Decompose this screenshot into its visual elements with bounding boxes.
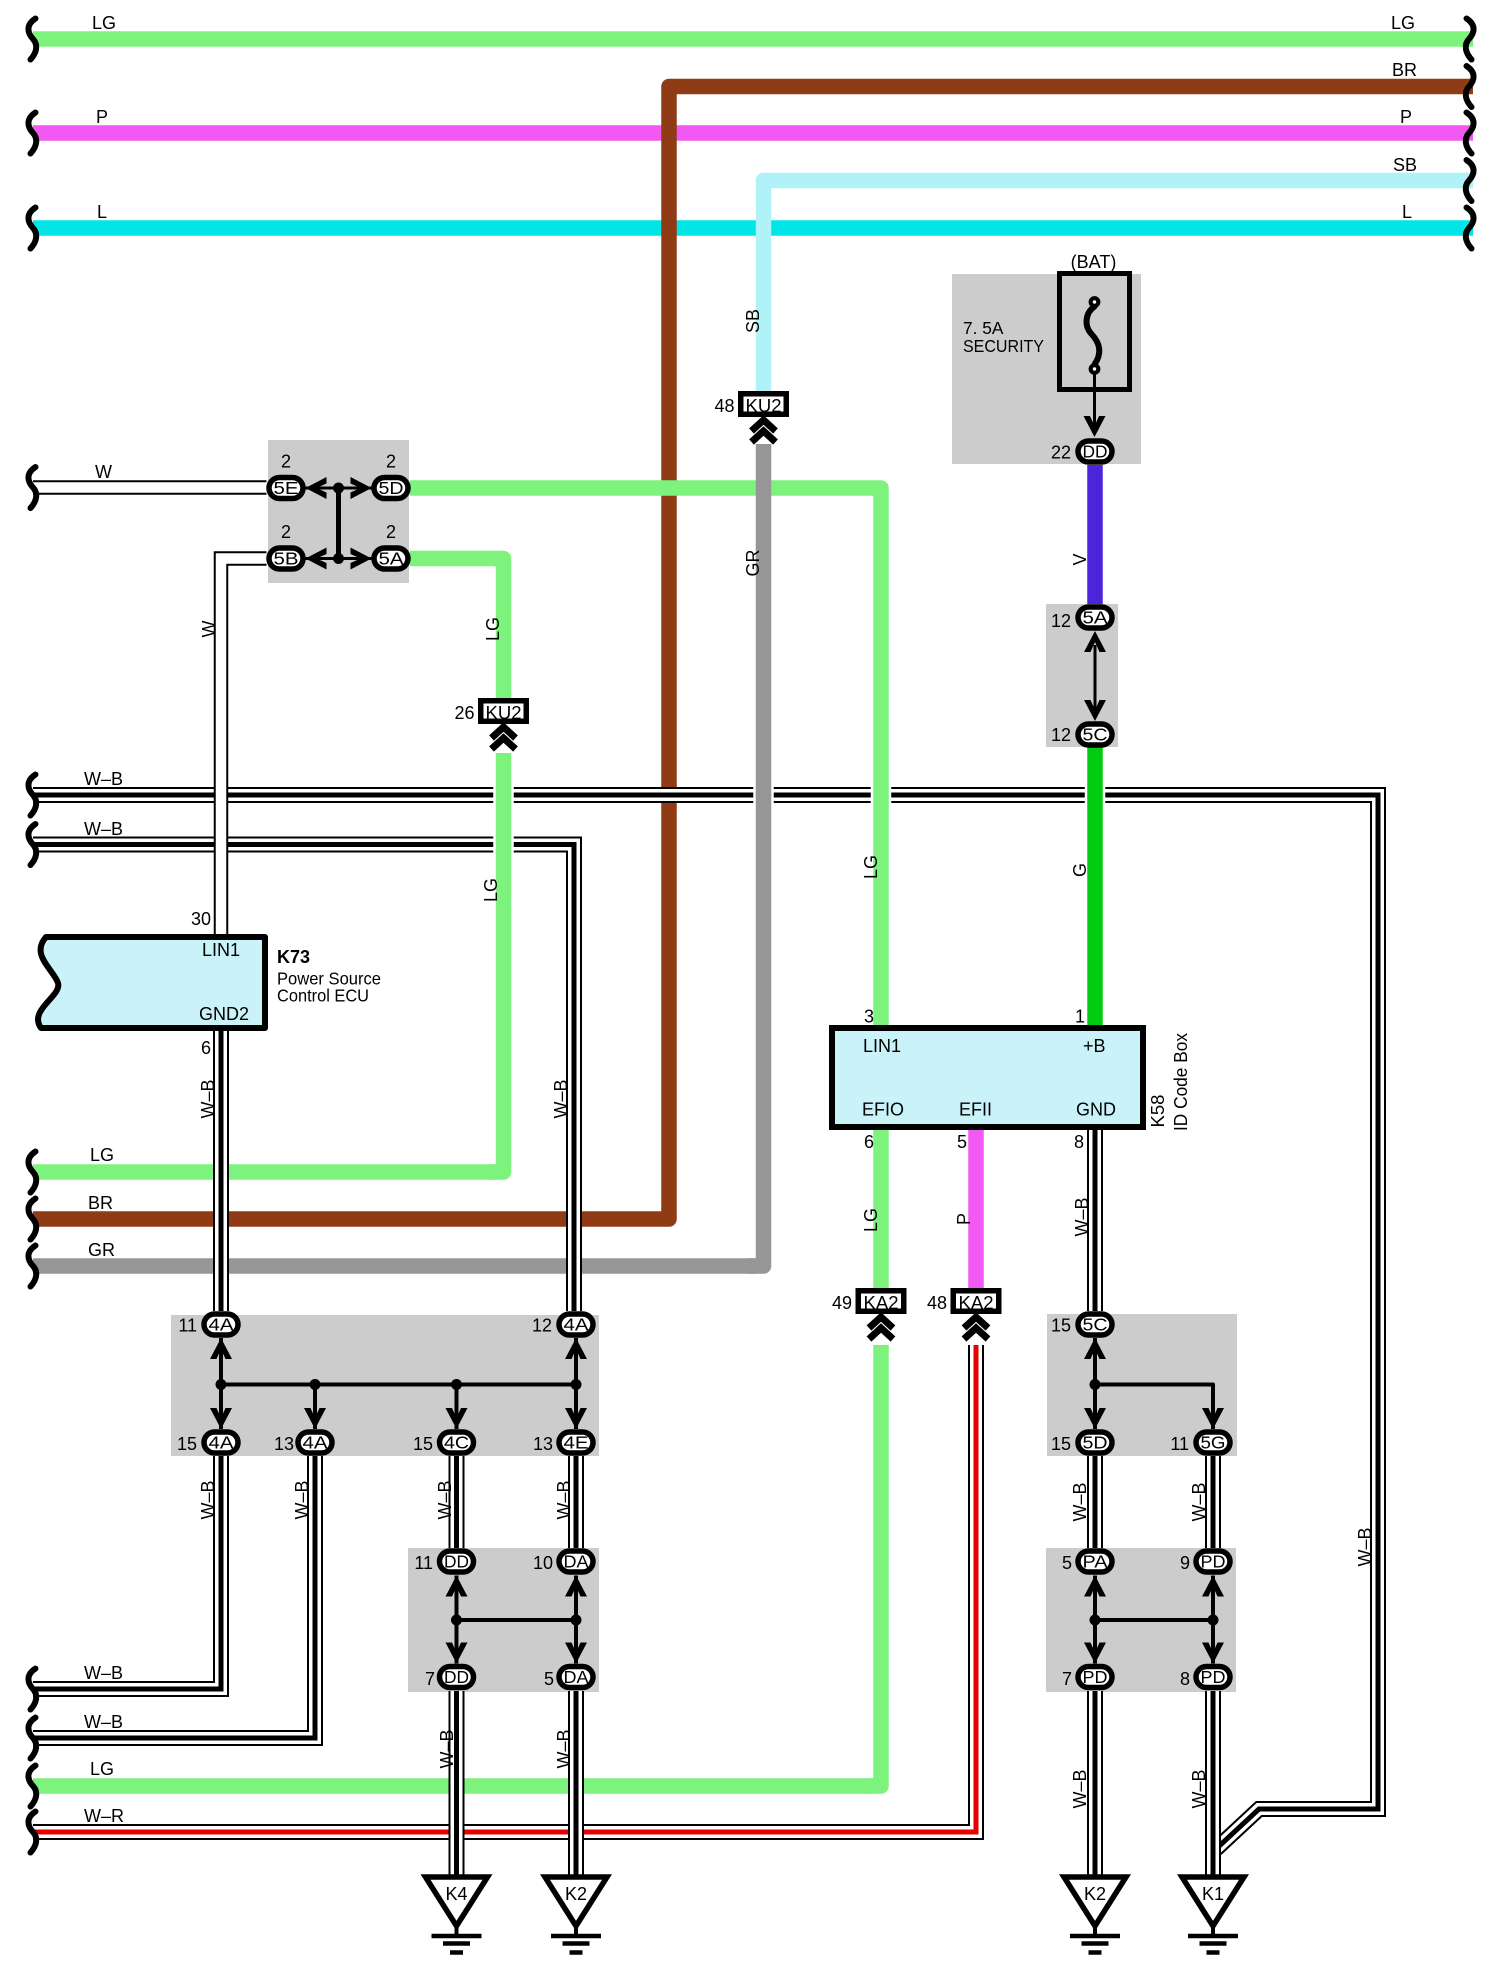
svg-text:5: 5 <box>1062 1553 1072 1573</box>
svg-text:12: 12 <box>1051 725 1071 745</box>
svg-text:DD: DD <box>1083 442 1108 462</box>
svg-text:W–B: W–B <box>1189 1769 1209 1808</box>
svg-text:2: 2 <box>386 452 396 472</box>
svg-text:V: V <box>1070 553 1090 565</box>
svg-text:GND: GND <box>1076 1100 1116 1120</box>
svg-text:7: 7 <box>425 1669 435 1689</box>
svg-text:KU2: KU2 <box>746 395 782 416</box>
svg-text:5E: 5E <box>274 478 299 498</box>
svg-text:LG: LG <box>483 617 503 641</box>
svg-text:LIN1: LIN1 <box>863 1036 901 1056</box>
svg-text:W: W <box>199 621 219 638</box>
svg-text:GR: GR <box>743 549 763 576</box>
svg-text:11: 11 <box>1170 1434 1189 1454</box>
svg-text:PA: PA <box>1083 1552 1108 1572</box>
svg-text:W–B: W–B <box>1070 1769 1090 1808</box>
svg-text:KU2: KU2 <box>486 702 522 723</box>
svg-text:W–B: W–B <box>84 1663 123 1683</box>
svg-text:LG: LG <box>90 1145 114 1165</box>
svg-text:K58: K58 <box>1147 1095 1168 1128</box>
svg-text:4A: 4A <box>303 1433 328 1453</box>
svg-text:15: 15 <box>1051 1316 1071 1336</box>
svg-text:15: 15 <box>1051 1434 1071 1454</box>
svg-text:4A: 4A <box>209 1315 234 1335</box>
svg-text:5C: 5C <box>1083 725 1108 745</box>
svg-text:KA2: KA2 <box>864 1292 899 1313</box>
svg-text:DD: DD <box>444 1667 469 1687</box>
svg-text:KA2: KA2 <box>959 1292 994 1313</box>
svg-text:LG: LG <box>1391 13 1415 33</box>
svg-text:Control ECU: Control ECU <box>277 986 369 1006</box>
svg-text:5A: 5A <box>379 549 404 569</box>
svg-text:8: 8 <box>1180 1669 1190 1689</box>
svg-text:6: 6 <box>201 1038 211 1058</box>
svg-text:K2: K2 <box>1084 1884 1106 1904</box>
svg-text:2: 2 <box>281 452 291 472</box>
svg-text:W–R: W–R <box>84 1806 124 1826</box>
svg-text:10: 10 <box>533 1553 553 1573</box>
svg-text:2: 2 <box>281 522 291 542</box>
svg-text:LG: LG <box>861 855 881 879</box>
svg-text:30: 30 <box>191 909 211 929</box>
svg-text:BR: BR <box>1392 60 1417 80</box>
svg-text:5D: 5D <box>1083 1433 1108 1453</box>
svg-text:8: 8 <box>1074 1132 1084 1152</box>
svg-text:W–B: W–B <box>551 1079 571 1118</box>
svg-text:PD: PD <box>1201 1552 1226 1572</box>
svg-text:12: 12 <box>532 1316 552 1336</box>
svg-text:5: 5 <box>544 1669 554 1689</box>
svg-text:LIN1: LIN1 <box>202 940 240 960</box>
svg-text:DD: DD <box>444 1552 469 1572</box>
svg-text:15: 15 <box>413 1434 433 1454</box>
svg-text:7. 5A: 7. 5A <box>963 318 1004 338</box>
svg-text:W–B: W–B <box>198 1079 218 1118</box>
svg-text:K1: K1 <box>1202 1884 1224 1904</box>
svg-text:+B: +B <box>1083 1036 1106 1056</box>
svg-text:9: 9 <box>1180 1553 1190 1573</box>
svg-text:P: P <box>954 1213 974 1225</box>
svg-text:W–B: W–B <box>198 1480 218 1519</box>
svg-text:3: 3 <box>864 1007 874 1027</box>
svg-text:P: P <box>1400 107 1412 127</box>
svg-text:W–B: W–B <box>437 1729 457 1768</box>
svg-text:PD: PD <box>1201 1667 1226 1687</box>
svg-text:15: 15 <box>177 1434 197 1454</box>
svg-text:5A: 5A <box>1083 608 1108 628</box>
svg-text:5G: 5G <box>1201 1433 1226 1453</box>
svg-text:EFII: EFII <box>959 1100 992 1120</box>
svg-text:49: 49 <box>832 1293 852 1313</box>
svg-text:W–B: W–B <box>1072 1197 1092 1236</box>
svg-text:5C: 5C <box>1083 1315 1108 1335</box>
svg-text:W–B: W–B <box>435 1480 455 1519</box>
svg-text:W–B: W–B <box>554 1729 574 1768</box>
svg-text:EFIO: EFIO <box>862 1100 904 1120</box>
svg-text:L: L <box>97 202 107 222</box>
svg-text:LG: LG <box>92 13 116 33</box>
svg-text:W: W <box>95 462 112 482</box>
svg-text:4A: 4A <box>564 1315 589 1335</box>
svg-text:5: 5 <box>957 1132 967 1152</box>
svg-text:K4: K4 <box>445 1884 467 1904</box>
svg-text:L: L <box>1402 202 1412 222</box>
svg-text:K2: K2 <box>565 1884 587 1904</box>
svg-text:W–B: W–B <box>292 1480 312 1519</box>
svg-text:GR: GR <box>88 1240 115 1260</box>
svg-text:5D: 5D <box>379 478 404 498</box>
svg-text:48: 48 <box>714 396 734 416</box>
svg-text:13: 13 <box>274 1434 294 1454</box>
svg-text:6: 6 <box>864 1132 874 1152</box>
svg-text:SB: SB <box>1393 155 1417 175</box>
svg-text:22: 22 <box>1051 443 1071 463</box>
svg-text:W–B: W–B <box>554 1480 574 1519</box>
svg-text:LG: LG <box>90 1759 114 1779</box>
svg-text:LG: LG <box>481 878 501 902</box>
svg-text:P: P <box>96 107 108 127</box>
svg-text:48: 48 <box>927 1293 947 1313</box>
svg-text:GND2: GND2 <box>199 1004 249 1024</box>
svg-text:W–B: W–B <box>1070 1482 1090 1521</box>
svg-text:4E: 4E <box>564 1433 589 1453</box>
svg-text:26: 26 <box>454 703 474 723</box>
svg-text:4C: 4C <box>444 1433 469 1453</box>
svg-text:7: 7 <box>1062 1669 1072 1689</box>
svg-text:11: 11 <box>178 1316 197 1336</box>
svg-text:ID Code Box: ID Code Box <box>1171 1033 1191 1131</box>
svg-text:G: G <box>1070 863 1090 877</box>
svg-text:2: 2 <box>386 522 396 542</box>
svg-text:BR: BR <box>88 1193 113 1213</box>
svg-text:11: 11 <box>414 1553 433 1573</box>
svg-text:W–B: W–B <box>1189 1482 1209 1521</box>
svg-text:13: 13 <box>533 1434 553 1454</box>
svg-text:4A: 4A <box>209 1433 234 1453</box>
svg-text:5B: 5B <box>274 549 299 569</box>
svg-text:PD: PD <box>1083 1667 1108 1687</box>
svg-text:W–B: W–B <box>1355 1527 1375 1566</box>
svg-text:LG: LG <box>861 1208 881 1232</box>
svg-text:W–B: W–B <box>84 819 123 839</box>
svg-text:(BAT): (BAT) <box>1071 252 1117 272</box>
svg-text:DA: DA <box>564 1667 589 1687</box>
svg-text:12: 12 <box>1051 611 1071 631</box>
svg-text:K73: K73 <box>277 947 310 967</box>
svg-text:1: 1 <box>1075 1007 1085 1027</box>
svg-text:SECURITY: SECURITY <box>963 336 1044 356</box>
svg-text:W–B: W–B <box>84 769 123 789</box>
svg-text:W–B: W–B <box>84 1712 123 1732</box>
svg-text:DA: DA <box>564 1552 589 1572</box>
svg-text:SB: SB <box>743 309 763 333</box>
